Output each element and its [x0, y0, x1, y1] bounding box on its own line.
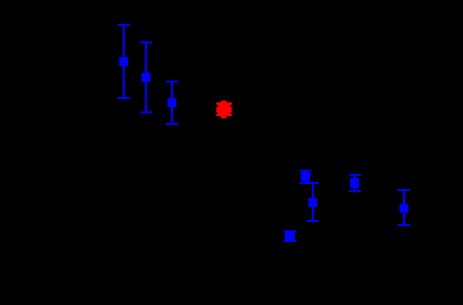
- data point 3 (blue errorbar): [166, 81, 178, 125]
- data point 6 (blue errorbar): [307, 182, 319, 222]
- data point 7 (blue errorbar): [349, 174, 361, 192]
- data point 1 (blue errorbar): [118, 24, 130, 99]
- data point 5 (blue errorbar, small): [299, 170, 311, 184]
- data point 8 (blue errorbar): [398, 189, 410, 226]
- data point 4 (red errorbar with x and y errors): [216, 101, 231, 119]
- data point 2 (blue errorbar): [140, 41, 152, 113]
- data point 9 (blue errorbar, tiny): [284, 230, 296, 242]
